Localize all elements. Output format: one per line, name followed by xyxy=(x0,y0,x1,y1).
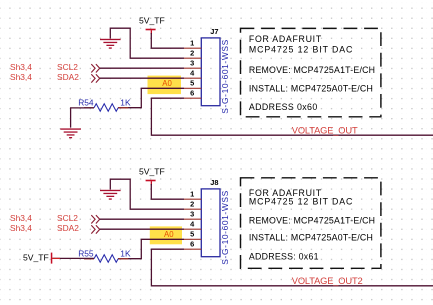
svg-text:FOR ADAFRUIT: FOR ADAFRUIT xyxy=(249,34,322,44)
svg-text:0: 0 xyxy=(220,69,230,74)
wire resistor R55 right lead xyxy=(118,258,142,260)
svg-text:W: W xyxy=(220,203,230,211)
annotation dashed box xyxy=(241,28,381,116)
svg-text:6: 6 xyxy=(190,89,194,98)
svg-text:Sh3,4: Sh3,4 xyxy=(10,213,32,223)
svg-text:Sh3,4: Sh3,4 xyxy=(10,223,32,233)
svg-text:6: 6 xyxy=(190,240,194,249)
svg-text:REMOVE: MCP4725A1T-E/CH: REMOVE: MCP4725A1T-E/CH xyxy=(249,215,375,225)
svg-text:J8: J8 xyxy=(210,178,218,187)
svg-text:5V_TF: 5V_TF xyxy=(139,16,165,26)
svg-text:5: 5 xyxy=(190,230,194,239)
svg-text:0: 0 xyxy=(220,234,230,239)
svg-text:G: G xyxy=(220,98,230,105)
wire resistor R54 left lead to ground xyxy=(71,108,94,128)
svg-text:S: S xyxy=(220,108,230,114)
supply 5V_TF symbol bar xyxy=(146,29,156,35)
svg-text:1: 1 xyxy=(220,239,230,244)
ground symbol (pin 2) xyxy=(100,39,121,49)
svg-text:ADDRESS 0x60: ADDRESS 0x60 xyxy=(249,102,318,112)
svg-text:1K: 1K xyxy=(120,248,131,258)
svg-text:S: S xyxy=(220,190,230,196)
svg-text:INSTALL: MCP4725A0T-E/CH: INSTALL: MCP4725A0T-E/CH xyxy=(249,233,373,243)
svg-text:Sh3,4: Sh3,4 xyxy=(10,62,32,72)
svg-text:1: 1 xyxy=(220,88,230,93)
svg-text:R55: R55 xyxy=(78,249,94,259)
wire resistor R54 right lead xyxy=(118,107,142,109)
svg-text:-: - xyxy=(220,231,230,234)
pin 1 of J8 xyxy=(184,190,201,200)
connector J7 body xyxy=(201,38,220,106)
connector J8 body xyxy=(201,189,220,257)
pin 6 of J7 xyxy=(184,89,201,99)
off-page chevron SDA2 (lower) xyxy=(91,225,99,233)
connector value SSW-106-01-G-S (lower) xyxy=(220,190,230,264)
svg-text:G: G xyxy=(220,249,230,256)
svg-text:3: 3 xyxy=(190,210,194,219)
supply 5V_TF symbol bar (lower) xyxy=(146,180,156,186)
svg-text:S: S xyxy=(220,46,230,52)
annotation dashed box (lower) xyxy=(241,178,381,268)
pin 4 of J8 xyxy=(184,220,201,230)
svg-text:S: S xyxy=(220,197,230,203)
pin 3 of J8 xyxy=(184,210,201,220)
wire 5V_TF to resistor R55 xyxy=(52,257,94,259)
wire pin 6 to VOLTAGE_OUT2 xyxy=(151,249,433,286)
svg-text:5V_TF: 5V_TF xyxy=(23,252,49,262)
ground symbol (resistor R54) xyxy=(60,128,81,138)
svg-text:MCP4725 12 BIT DAC: MCP4725 12 BIT DAC xyxy=(249,196,353,206)
svg-text:1: 1 xyxy=(220,64,230,69)
pin 6 of J8 xyxy=(184,240,201,250)
wire pin 6 to VOLTAGE_OUT xyxy=(151,98,433,135)
svg-text:-: - xyxy=(220,245,230,248)
svg-text:-: - xyxy=(220,80,230,83)
wire ground to pin 2 (lower) xyxy=(110,179,184,209)
svg-text:0: 0 xyxy=(220,83,230,88)
supply 5V_TF bar (R55 left) xyxy=(51,253,53,264)
svg-text:R54: R54 xyxy=(78,98,94,108)
supply pin stub (R55 left) xyxy=(52,257,60,259)
off-page chevron SCL2 (lower) xyxy=(91,215,99,223)
svg-text:INSTALL: MCP4725A0T-E/CH: INSTALL: MCP4725A0T-E/CH xyxy=(249,84,373,94)
svg-text:1: 1 xyxy=(220,215,230,220)
off-page chevron SDA2 xyxy=(91,74,99,82)
svg-text:2: 2 xyxy=(190,49,194,58)
svg-text:5: 5 xyxy=(190,79,194,88)
svg-text:-: - xyxy=(220,61,230,64)
svg-text:-: - xyxy=(220,104,230,107)
svg-text:1K: 1K xyxy=(120,97,131,107)
svg-text:SDA2: SDA2 xyxy=(57,223,79,233)
pin 5 of J8 xyxy=(184,230,201,240)
svg-text:VOLTAGE_OUT2: VOLTAGE_OUT2 xyxy=(292,276,363,286)
svg-text:-: - xyxy=(220,255,230,258)
wire pin 5 (A0) to resistor R55 (lower) xyxy=(141,239,184,258)
resistor R55 pin stubs xyxy=(84,258,128,260)
resistor R54 zigzag xyxy=(94,104,118,112)
node A0 highlight (U2 section) xyxy=(150,226,182,244)
svg-text:2: 2 xyxy=(190,200,194,209)
svg-text:ADDRESS: 0x61: ADDRESS: 0x61 xyxy=(249,252,319,262)
node A0 highlight (U1 section) xyxy=(148,76,182,95)
svg-text:SDA2: SDA2 xyxy=(57,72,79,82)
svg-text:-: - xyxy=(220,94,230,97)
svg-text:3: 3 xyxy=(190,59,194,68)
svg-text:MCP4725 12 BIT DAC: MCP4725 12 BIT DAC xyxy=(249,44,353,54)
svg-text:-: - xyxy=(220,212,230,215)
wire 5V_TF to pin 1 xyxy=(151,33,184,48)
svg-text:W: W xyxy=(220,52,230,60)
pin 5 of J7 xyxy=(184,79,201,89)
resistor R54 pin stubs xyxy=(84,107,128,109)
pin 1 of J7 xyxy=(184,39,201,49)
svg-text:6: 6 xyxy=(220,74,230,79)
svg-text:A0: A0 xyxy=(162,79,172,88)
wire pin 5 (A0) to resistor R54 xyxy=(141,88,184,107)
svg-text:SCL2: SCL2 xyxy=(57,213,78,223)
pin 3 of J7 xyxy=(184,59,201,69)
svg-text:A0: A0 xyxy=(164,230,174,239)
pin 2 of J8 xyxy=(184,200,201,210)
svg-text:0: 0 xyxy=(220,220,230,225)
svg-text:VOLTAGE_OUT: VOLTAGE_OUT xyxy=(292,126,358,136)
wire SCL2 to pin 3 (lower) xyxy=(100,218,184,220)
ground symbol (pin 2) (lower) xyxy=(100,190,121,200)
svg-text:6: 6 xyxy=(220,225,230,230)
svg-text:1: 1 xyxy=(190,190,194,199)
svg-text:J7: J7 xyxy=(210,27,218,36)
connector value SSW-106-01-G-S xyxy=(220,39,230,113)
wire SDA2 to pin 4 xyxy=(100,77,184,79)
wire ground to pin 2 xyxy=(110,28,184,58)
svg-text:S: S xyxy=(220,259,230,265)
wire 5V_TF to pin 1 (lower) xyxy=(151,184,184,199)
svg-text:Sh3,4: Sh3,4 xyxy=(10,72,32,82)
svg-text:REMOVE: MCP4725A1T-E/CH: REMOVE: MCP4725A1T-E/CH xyxy=(249,65,375,75)
svg-text:SCL2: SCL2 xyxy=(57,62,78,72)
svg-text:S: S xyxy=(220,39,230,45)
pin 4 of J7 xyxy=(184,69,201,79)
wire SDA2 to pin 4 (lower) xyxy=(100,228,184,230)
svg-text:5V_TF: 5V_TF xyxy=(139,167,165,177)
svg-text:1: 1 xyxy=(190,39,194,48)
off-page chevron SCL2 xyxy=(91,64,99,72)
pin 2 of J7 xyxy=(184,49,201,59)
resistor R55 zigzag xyxy=(94,255,118,263)
wire SCL2 to pin 3 xyxy=(100,67,184,69)
